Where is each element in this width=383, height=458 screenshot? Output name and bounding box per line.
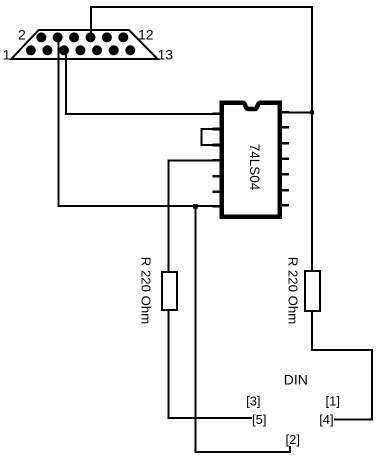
svg-text:DIN: DIN	[284, 371, 308, 387]
svg-text:2: 2	[18, 27, 26, 43]
svg-text:1: 1	[3, 46, 11, 62]
svg-text:12: 12	[138, 27, 154, 43]
svg-text:[5]: [5]	[252, 412, 266, 427]
svg-text:74LS04: 74LS04	[247, 144, 262, 191]
svg-text:[1]: [1]	[326, 393, 340, 408]
svg-text:R 220 Ohm: R 220 Ohm	[138, 257, 153, 324]
svg-text:13: 13	[158, 47, 174, 63]
svg-text:[2]: [2]	[286, 432, 300, 447]
svg-text:R 220 Ohm: R 220 Ohm	[286, 257, 301, 324]
svg-text:[4]: [4]	[319, 412, 333, 427]
svg-text:[3]: [3]	[246, 393, 260, 408]
